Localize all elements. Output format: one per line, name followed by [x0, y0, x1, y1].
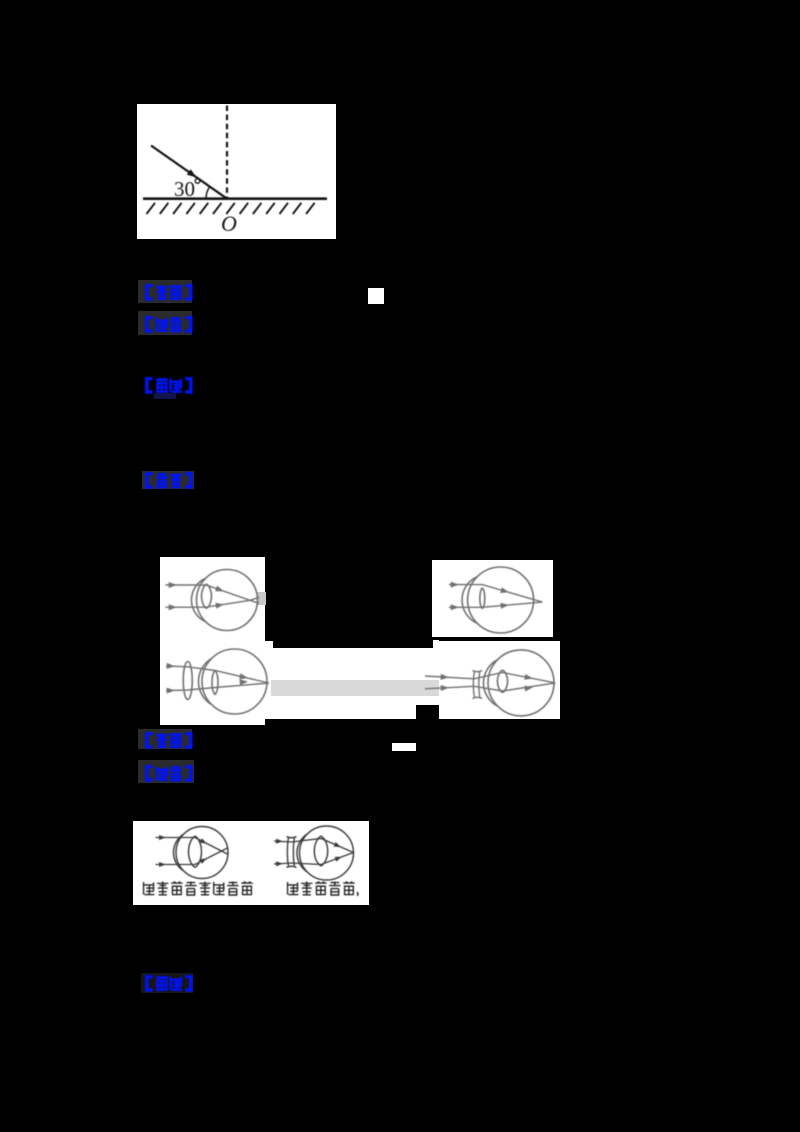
svg-text:30: 30 [174, 177, 195, 201]
eye figure bottom-left [160, 645, 270, 725]
figure: myopia imaging + correction [133, 821, 369, 905]
right eye diagram [300, 826, 354, 880]
white panel left column [160, 557, 265, 726]
angle arc [205, 187, 209, 199]
mirror surface [143, 197, 327, 200]
white panel top right [432, 560, 553, 638]
svg-text:O: O [221, 211, 237, 236]
gray tab [257, 592, 266, 605]
left eye diagram [176, 827, 228, 879]
caption left: myopia imaging features [144, 882, 253, 896]
figure: incident ray on plane mirror [137, 104, 337, 239]
caption right: myopia correction [288, 882, 355, 896]
label [answer] 2 [138, 729, 192, 749]
label [detail] [144, 377, 194, 394]
label [answer] [138, 280, 192, 303]
white dash [392, 743, 417, 751]
incident ray [151, 145, 227, 198]
dashed normal [225, 105, 227, 198]
black notch [416, 705, 439, 719]
eye figure top-left [160, 557, 265, 647]
white square (inverted image) [368, 288, 384, 305]
label [keypoint] [142, 471, 194, 489]
label [analysis] 2 [138, 760, 194, 783]
white sliver right [433, 640, 440, 648]
white sliver left [265, 641, 273, 648]
hatching [146, 202, 314, 213]
label [analysis] [138, 311, 192, 335]
eye figure bottom-right [416, 641, 561, 720]
label [detail] 2 [141, 973, 193, 993]
white panel bottom right [439, 641, 560, 720]
gray strip [271, 680, 439, 696]
white panel middle bottom [265, 648, 440, 719]
eye figure top-right [432, 560, 553, 638]
